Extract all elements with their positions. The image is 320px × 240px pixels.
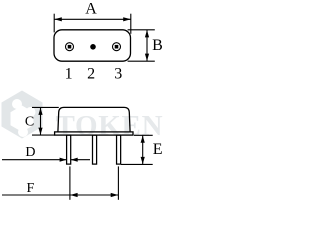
svg-text:F: F (27, 181, 35, 196)
svg-text:1: 1 (65, 65, 73, 82)
svg-text:TOKEN: TOKEN (56, 110, 164, 142)
svg-text:C: C (25, 115, 34, 130)
svg-text:2: 2 (87, 65, 95, 82)
svg-text:A: A (85, 0, 97, 17)
svg-text:D: D (25, 145, 35, 160)
svg-text:E: E (153, 141, 163, 158)
svg-text:B: B (152, 37, 163, 54)
svg-text:3: 3 (114, 65, 122, 82)
